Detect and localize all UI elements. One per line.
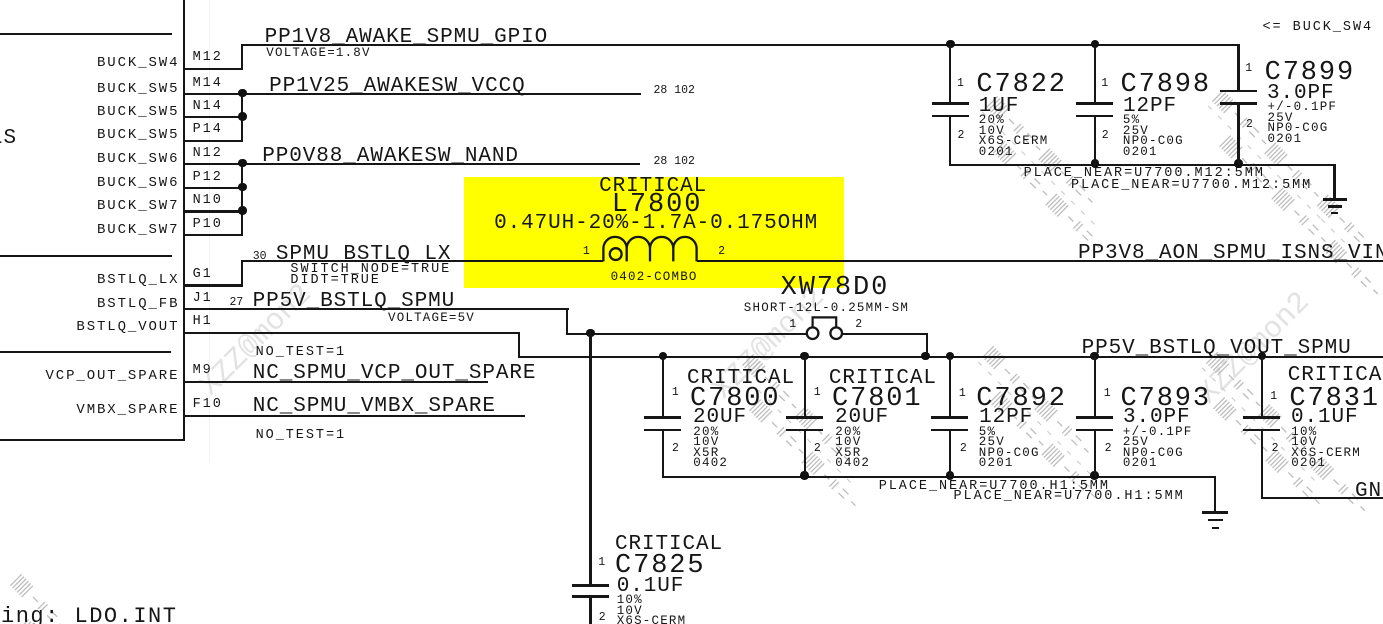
capacitor C7893 refdes <box>1121 386 1212 413</box>
hatch watermark band mid C7892 <box>963 346 1120 503</box>
capacitor C7831 top lead <box>1261 356 1263 418</box>
capacitor C7893 pin 2 <box>1105 443 1112 455</box>
wire top cap bank bottom rail <box>949 164 1335 166</box>
wire pin F10 net NC_SPMU_VMBX_SPARE <box>184 415 525 417</box>
IC U7700 bottom edge <box>0 439 185 441</box>
jumper XW78D0 pin 2 circle <box>830 327 842 339</box>
wire pin H1 net BSTLQ_VOUT <box>184 332 519 334</box>
capacitor C7800 top lead <box>662 356 664 418</box>
net name SPMU_BSTLQ_LX <box>276 244 452 265</box>
wire net PP3V8_AON_SPMU_ISNS_VIN right <box>697 260 1383 262</box>
capacitor C7831 refdes <box>1289 386 1380 413</box>
pin number P14 <box>193 123 223 137</box>
capacitor C7898 bottom lead <box>1094 117 1096 166</box>
IC U7700 section divider 2 <box>0 255 172 257</box>
net name PP5V_BSTLQ_SPMU <box>253 291 456 312</box>
capacitor C7800 pin 1 <box>672 387 679 399</box>
sheet note ing: LDO.INT <box>1 606 177 624</box>
capacitor C7825 properties <box>617 594 643 607</box>
junction dot C7825 tap <box>586 329 594 337</box>
pin number N12 <box>193 147 223 161</box>
capacitor C7898 value 12PF <box>1123 96 1177 117</box>
capacitor C7831 pin 2 <box>1272 443 1279 455</box>
capacitor C7801 properties <box>835 426 861 439</box>
ground symbol bottom bank <box>1214 476 1216 513</box>
hatch watermark bottom left corner <box>0 574 96 624</box>
capacitor C7892 pin 2 <box>960 443 967 455</box>
page ref 27 <box>230 297 244 309</box>
wire C7831 to GND net <box>1261 497 1383 499</box>
pin BUCK_SW6 label <box>97 152 179 166</box>
capacitor C7898 plates <box>1076 102 1113 105</box>
capacitor C7800 bottom lead <box>662 431 664 478</box>
junction dot vout rail C7801 <box>800 352 808 360</box>
junction dot ground rail C7893 <box>1090 471 1098 479</box>
pin BSTLQ_FB label <box>97 297 179 311</box>
pin BUCK_SW5 label <box>97 82 179 96</box>
junction dot M14 <box>238 89 246 97</box>
wire pin N14 stub <box>184 116 243 118</box>
capacitor C7831 value 0.1UF <box>1291 407 1359 428</box>
inductor L7800 pin 2 <box>718 246 725 258</box>
capacitor C7801 refdes <box>832 386 923 413</box>
net name GND <box>1355 481 1383 502</box>
pin number N10 <box>193 194 223 208</box>
hatch watermark band near C7800 <box>723 354 880 511</box>
property NO_TEST=1 <box>256 429 346 443</box>
capacitor C7801 pin 1 <box>814 387 821 399</box>
page refs 28 102 <box>654 85 695 97</box>
wire pin N10 stub <box>184 210 243 212</box>
jumper XW78D0 pin 1 <box>789 319 796 331</box>
junction dot vout rail jumper corner <box>921 352 929 360</box>
capacitor C7892 properties <box>979 426 996 439</box>
off-page ref BUCK_SW4 <box>1263 21 1374 35</box>
inductor L7800 pin-1 marker circle <box>610 248 622 260</box>
capacitor C7801 top lead <box>804 356 806 418</box>
wire bus BUCK_SW6/SW7 vertical <box>241 163 243 236</box>
capacitor C7801 value 20UF <box>835 407 889 428</box>
capacitor C7800 refdes <box>690 386 781 413</box>
junction dot vout rail C7893 <box>1090 352 1098 360</box>
capacitor C7898 properties <box>1123 114 1140 127</box>
property VOLTAGE=5V <box>388 312 475 325</box>
wire bottom cap bank ground rail <box>662 476 1216 478</box>
net name PP3V8_AON_SPMU_ISNS_VIN <box>1078 243 1383 264</box>
pin BUCK_SW6 label <box>97 176 179 190</box>
pin number M12 <box>193 51 223 65</box>
capacitor C7800 plates <box>644 416 681 419</box>
property VOLTAGE=1.8V <box>266 47 370 60</box>
inductor L7800 highlight box <box>464 177 844 288</box>
capacitor C7892 refdes <box>976 386 1067 413</box>
junction dot N14 <box>238 112 246 120</box>
junction dot bottom rail C7899 <box>1234 159 1242 167</box>
wire jumper XW78D0 right <box>842 333 928 335</box>
wire J1 elbow vertical <box>566 308 568 333</box>
jumper XW78D0 pin 2 <box>855 319 862 331</box>
net name PP0V88_AWAKESW_NAND <box>262 146 519 167</box>
wire pin G1 stub <box>184 284 243 286</box>
inductor L7800 value <box>494 213 818 234</box>
capacitor C7893 value 3.0PF <box>1123 407 1191 428</box>
wire pin P10 stub <box>184 234 243 236</box>
wire pin J1 net PP5V_BSTLQ_SPMU <box>184 308 569 310</box>
junction dot top rail C7822 <box>946 40 954 48</box>
wire bus BUCK_SW5 vertical <box>241 93 243 141</box>
inductor L7800 texts: CRITICAL <box>599 176 707 197</box>
net name PP5V_BSTLQ_VOUT_SPMU <box>1082 338 1352 359</box>
junction dot vout rail C7831 <box>1258 352 1266 360</box>
watermark XZZ@mon2 left <box>195 279 318 402</box>
capacitor C7801 bottom lead <box>804 431 806 478</box>
capacitor C7825 pin 1 <box>598 557 605 569</box>
capacitor C7822 plates <box>932 102 969 105</box>
IC U7700 right edge <box>183 0 185 440</box>
junction dot vout rail C7892 <box>946 352 954 360</box>
capacitor C7800 value 20UF <box>693 407 747 428</box>
capacitor C7801 plates <box>786 416 823 419</box>
capacitor C7898 pin 2 <box>1102 130 1109 142</box>
capacitor C7800 CRITICAL <box>687 368 795 389</box>
property SWITCH_NODE=TRUE <box>290 263 451 277</box>
capacitor C7800 pin 2 <box>672 443 679 455</box>
net name PP1V25_AWAKESW_VCCQ <box>269 76 526 97</box>
pin number F10 <box>193 398 223 412</box>
IC U7700 section divider 3 <box>0 351 171 353</box>
net label LS (cut) <box>0 128 17 149</box>
IC U7700 section divider 1 <box>0 33 172 35</box>
inductor L7800 coil arches <box>603 237 696 262</box>
capacitor C7831 plates <box>1243 416 1280 419</box>
capacitor C7899 value 3.0PF <box>1267 83 1335 104</box>
pin BUCK_SW5 label <box>97 128 179 142</box>
capacitor C7822 top lead <box>949 44 951 104</box>
hatch watermark band right lower <box>1187 352 1370 535</box>
pin BUCK_SW5 label <box>97 105 179 119</box>
page refs 28 102 <box>654 156 695 168</box>
capacitor C7893 bottom lead <box>1094 431 1096 478</box>
faint scan gridline <box>209 0 210 462</box>
ground symbol top bank <box>1333 164 1335 200</box>
wire jumper XW78D0 left <box>566 333 807 335</box>
capacitor C7892 top lead <box>949 356 951 418</box>
hatch watermark band top right <box>1193 90 1383 299</box>
junction dot ground rail C7801 <box>800 471 808 479</box>
pin number G1 <box>193 268 213 282</box>
placement note PLACE_NEAR=U7700.H1:5MM <box>879 480 1110 494</box>
junction dot vout rail C7800 <box>659 352 667 360</box>
capacitor C7899 pin 2 <box>1246 119 1253 131</box>
capacitor C7893 top lead <box>1094 356 1096 418</box>
jumper XW78D0 value SHORT-12L-0.25MM-SM <box>744 302 909 315</box>
capacitor C7822 bottom lead <box>949 117 951 166</box>
capacitor C7892 plates <box>931 416 968 419</box>
wire jumper corner vertical <box>926 333 928 357</box>
capacitor C7801 CRITICAL <box>829 368 937 389</box>
wire pin M14 stub + net PP1V25_AWAKESW_VCCQ <box>184 93 641 95</box>
page ref 30 <box>253 251 267 263</box>
watermark XZZ@mon2 middle <box>708 282 831 405</box>
pin VCP_OUT_SPARE label <box>45 369 179 383</box>
jumper XW78D0 refdes <box>781 275 890 302</box>
junction dot ground rail C7892 <box>946 471 954 479</box>
capacitor C7899 top lead <box>1237 44 1239 92</box>
capacitor C7893 plates <box>1076 416 1113 419</box>
wire pin N12 stub + net PP0V88_AWAKESW_NAND <box>184 163 640 165</box>
capacitor C7801 pin 2 <box>814 443 821 455</box>
capacitor C7825 plates <box>572 584 609 587</box>
capacitor C7800 properties <box>693 426 719 439</box>
capacitor C7831 bottom lead <box>1261 431 1263 499</box>
wire M12 elbow vertical <box>241 44 243 70</box>
capacitor C7825 bottom lead <box>589 598 591 624</box>
capacitor C7825 CRITICAL <box>615 534 723 555</box>
placement note PLACE_NEAR=U7700.H1:5MM <box>954 490 1185 504</box>
capacitor C7899 pin 1 <box>1245 63 1252 75</box>
pin BUCK_SW7 label <box>97 223 179 237</box>
wire net PP1V8_AWAKE_SPMU_GPIO <box>241 44 1239 46</box>
junction dot bottom rail C7898 <box>1091 159 1099 167</box>
hatch watermark band top middle <box>967 96 1124 253</box>
watermark XZZ@mon2 right <box>1193 287 1316 410</box>
capacitor C7825 top lead <box>589 333 591 585</box>
junction dot N12 <box>238 159 246 167</box>
capacitor C7892 pin 1 <box>959 388 966 400</box>
wire pin P12 stub <box>184 187 243 189</box>
jumper XW78D0 bracket <box>813 317 837 327</box>
capacitor C7892 bottom lead <box>949 431 951 478</box>
capacitor C7822 properties <box>979 114 1005 127</box>
wire pin M12 stub <box>184 68 243 70</box>
capacitor C7899 bottom lead <box>1237 104 1239 165</box>
capacitor C7831 pin 1 <box>1270 391 1277 403</box>
capacitor C7893 pin 1 <box>1104 388 1111 400</box>
capacitor C7898 refdes <box>1121 72 1212 99</box>
capacitor C7825 refdes <box>615 553 706 580</box>
capacitor C7822 refdes <box>976 72 1067 99</box>
pin number J1 <box>193 292 213 306</box>
capacitor C7893 properties <box>1123 426 1193 439</box>
capacitor C7899 refdes <box>1265 60 1356 87</box>
capacitor C7892 value 12PF <box>979 407 1033 428</box>
pin BUCK_SW4 label <box>97 56 179 70</box>
pin BSTLQ_VOUT label <box>76 320 179 334</box>
capacitor C7831 CRITICAL <box>1288 365 1383 386</box>
inductor L7800 package 0402-COMBO <box>611 271 698 284</box>
inductor L7800 refdes <box>612 192 703 219</box>
capacitor C7899 properties <box>1268 101 1338 114</box>
pin number H1 <box>193 315 213 329</box>
capacitor C7825 pin 2 <box>599 612 606 624</box>
pin number M14 <box>193 77 223 91</box>
placement note PLACE_NEAR=U7700.M12:5MM <box>1024 167 1265 181</box>
capacitor C7831 properties <box>1291 426 1317 439</box>
pin BSTLQ_LX label <box>97 273 179 287</box>
net name PP1V8_AWAKE_SPMU_GPIO <box>265 27 549 48</box>
junction dot N10 <box>238 206 246 214</box>
pin number M9 <box>193 364 213 378</box>
capacitor C7898 pin 1 <box>1101 78 1108 90</box>
jumper XW78D0 pin 1 circle <box>807 327 819 339</box>
property NO_TEST=1 <box>256 346 346 360</box>
pin VMBX_SPARE label <box>76 403 179 417</box>
capacitor C7822 pin 1 <box>957 78 964 90</box>
pin number P10 <box>193 218 223 232</box>
wire net SPMU_BSTLQ_LX left <box>241 260 603 262</box>
junction dot P12 <box>238 183 246 191</box>
junction dot top rail C7898 <box>1091 40 1099 48</box>
wire pin M9 net NC_SPMU_VCP_OUT_SPARE <box>184 381 488 383</box>
net name NC_SPMU_VMBX_SPARE <box>253 396 496 417</box>
wire rail PP5V_BSTLQ_VOUT_SPMU <box>518 356 1383 358</box>
wire pin P14 stub <box>184 140 243 142</box>
wire H1 elbow vertical <box>518 332 520 358</box>
pin number P12 <box>193 171 223 185</box>
property DIDT=TRUE <box>290 274 380 288</box>
capacitor C7898 top lead <box>1094 44 1096 104</box>
placement note PLACE_NEAR=U7700.M12:5MM <box>1071 179 1312 193</box>
pin number N14 <box>193 100 223 114</box>
capacitor C7822 pin 2 <box>958 130 965 142</box>
pin BUCK_SW7 label <box>97 199 179 213</box>
capacitor C7822 value 1UF <box>979 96 1020 117</box>
inductor L7800 pin 1 <box>583 246 590 258</box>
capacitor C7825 value 0.1UF <box>617 576 685 597</box>
capacitor C7899 plates <box>1220 90 1257 93</box>
wire G1 elbow vertical <box>241 260 243 286</box>
net name NC_SPMU_VCP_OUT_SPARE <box>253 363 537 384</box>
